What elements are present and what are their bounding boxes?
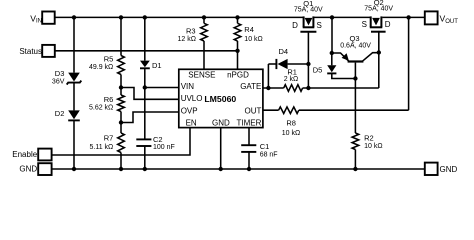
svg-text:75A, 40V: 75A, 40V	[294, 7, 323, 14]
svg-text:D4: D4	[279, 47, 289, 56]
svg-text:D2: D2	[55, 109, 65, 118]
svg-text:GND: GND	[212, 119, 230, 128]
svg-text:OUT: OUT	[245, 106, 262, 115]
svg-text:SENSE: SENSE	[188, 71, 215, 80]
svg-text:D3: D3	[55, 69, 65, 78]
svg-text:GND: GND	[440, 165, 458, 174]
svg-text:D: D	[292, 21, 298, 30]
svg-text:R2: R2	[364, 134, 374, 143]
svg-text:GND: GND	[19, 165, 37, 174]
svg-text:Status: Status	[19, 47, 42, 56]
svg-text:S: S	[362, 20, 367, 29]
svg-text:C1: C1	[260, 142, 270, 151]
svg-text:R7: R7	[104, 134, 114, 143]
svg-text:36V: 36V	[52, 78, 65, 85]
svg-text:TIMER: TIMER	[237, 119, 262, 128]
svg-text:10 kΩ: 10 kΩ	[282, 130, 300, 137]
svg-text:5.11 kΩ: 5.11 kΩ	[90, 144, 114, 151]
svg-text:R4: R4	[244, 25, 254, 34]
svg-text:R1: R1	[287, 67, 297, 76]
svg-text:R5: R5	[104, 55, 114, 64]
svg-text:LM5060: LM5060	[204, 94, 236, 104]
svg-text:12 kΩ: 12 kΩ	[178, 36, 196, 43]
svg-text:10 kΩ: 10 kΩ	[244, 36, 262, 43]
svg-text:Enable: Enable	[12, 150, 37, 159]
svg-text:VIN: VIN	[181, 82, 195, 91]
svg-text:75A, 40V: 75A, 40V	[364, 6, 393, 13]
svg-text:GATE: GATE	[240, 82, 261, 91]
svg-text:UVLO: UVLO	[181, 94, 203, 103]
svg-text:0.6A, 40V: 0.6A, 40V	[340, 43, 371, 50]
svg-text:D1: D1	[152, 61, 162, 70]
svg-text:R8: R8	[286, 119, 296, 128]
svg-text:D: D	[385, 20, 391, 29]
svg-text:68 nF: 68 nF	[260, 151, 278, 158]
svg-text:R3: R3	[186, 27, 196, 36]
svg-text:OVP: OVP	[181, 106, 198, 115]
svg-text:2 kΩ: 2 kΩ	[284, 76, 299, 83]
svg-text:nPGD: nPGD	[227, 71, 249, 80]
svg-text:100 nF: 100 nF	[153, 144, 175, 151]
svg-text:S: S	[317, 21, 322, 30]
svg-text:10 kΩ: 10 kΩ	[364, 143, 382, 150]
svg-text:R6: R6	[104, 95, 114, 104]
svg-text:C2: C2	[153, 135, 163, 144]
svg-text:D5: D5	[313, 65, 323, 74]
svg-text:EN: EN	[186, 119, 197, 128]
svg-text:5.62 kΩ: 5.62 kΩ	[89, 105, 113, 112]
svg-text:49.9 kΩ: 49.9 kΩ	[89, 64, 113, 71]
